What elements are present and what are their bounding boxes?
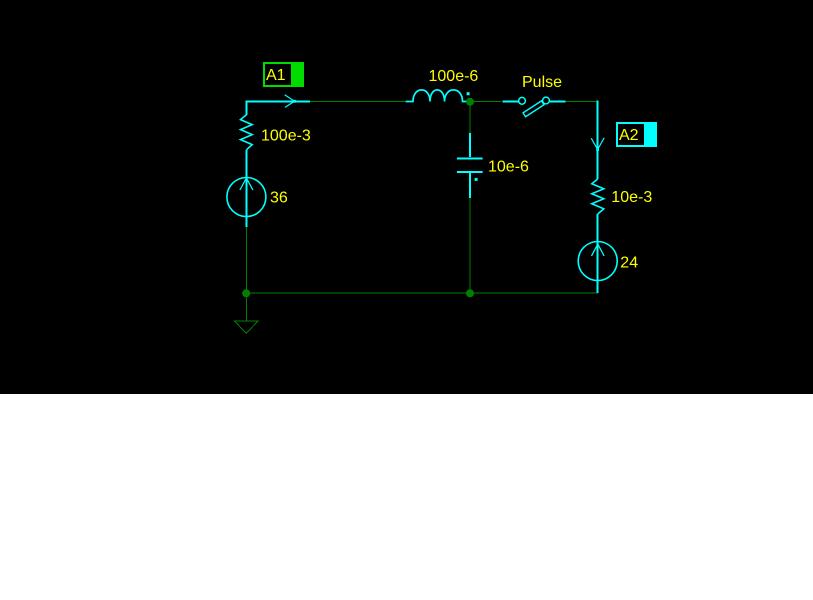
svg-text:A1: A1 bbox=[266, 67, 286, 84]
svg-text:24: 24 bbox=[620, 255, 638, 272]
svg-text:10e-3: 10e-3 bbox=[611, 189, 652, 206]
svg-text:36: 36 bbox=[270, 189, 288, 206]
svg-text:A2: A2 bbox=[619, 127, 639, 144]
svg-text:Pulse: Pulse bbox=[522, 74, 562, 91]
svg-text:100e-3: 100e-3 bbox=[261, 127, 311, 144]
svg-text:10e-6: 10e-6 bbox=[488, 159, 529, 176]
svg-text:100e-6: 100e-6 bbox=[429, 68, 479, 85]
